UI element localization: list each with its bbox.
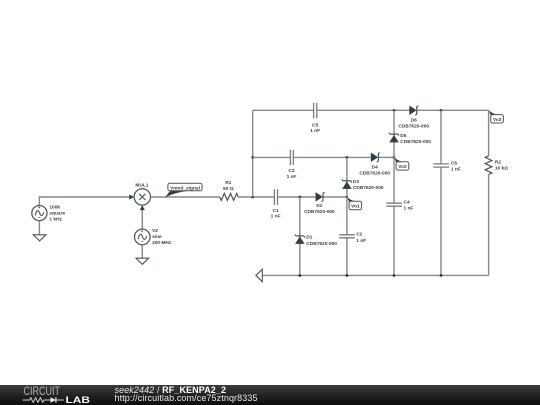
voltage source V1: [32, 206, 47, 221]
svg-text:C4: C4: [404, 200, 410, 206]
svg-text:CDB7620-000: CDB7620-000: [353, 185, 384, 191]
CircuitLab logo resistor-diode glyph: [23, 397, 64, 402]
wire V2 to ground: [141, 245, 143, 259]
wire riser from main wire to top rail: [252, 110, 254, 197]
svg-text:Vo2: Vo2: [398, 164, 407, 170]
svg-text:Vo3: Vo3: [493, 117, 502, 123]
diode D6 CDB7620-000: [398, 106, 429, 130]
multiplier MUL1: [134, 183, 150, 205]
svg-text:D2: D2: [316, 203, 322, 209]
wire D6 to Vo3 corner: [417, 109, 488, 111]
junction at C4 / bottom rail: [393, 274, 396, 277]
junction at C2 / bottom rail: [346, 274, 349, 277]
svg-text:C2: C2: [356, 231, 362, 237]
svg-text:200 MHz: 200 MHz: [152, 240, 172, 246]
svg-text:V2: V2: [152, 228, 158, 234]
wire R2 branch vertical upper: [488, 110, 490, 156]
capacitor C5: [310, 103, 320, 134]
junction at node Vo2: [393, 156, 396, 159]
bottom rail wire: [262, 274, 488, 276]
junction at D5 branch / top rail: [393, 109, 396, 112]
svg-text:1 kHz: 1 kHz: [49, 217, 62, 223]
svg-text:MUL1: MUL1: [135, 183, 148, 189]
resistor R2: [485, 156, 508, 175]
junction at D3 branch / middle rail: [346, 156, 349, 159]
wire D3 branch vertical lower: [346, 238, 348, 275]
wire C6 branch vertical lower: [440, 167, 442, 275]
svg-text:CDB7620-000: CDB7620-000: [359, 171, 390, 177]
net flag Vo2: [394, 157, 409, 170]
resistor R1: [220, 180, 239, 201]
net flag Vo3: [489, 110, 504, 123]
wire V1 to MUL1 with arrowhead: [39, 195, 134, 200]
junction at D1 / bottom rail: [298, 274, 301, 277]
net flag Vo1: [347, 197, 362, 210]
wire R1 to C1: [238, 196, 274, 198]
svg-text:1 nF: 1 nF: [310, 128, 320, 134]
wire D5 branch vertical lower: [393, 206, 395, 275]
svg-text:CDB7620-000: CDB7620-000: [304, 209, 335, 215]
wire D2 to node Vo1: [323, 196, 347, 198]
wire R2 branch vertical lower: [488, 175, 490, 276]
junction at riser / middle rail: [251, 156, 254, 159]
ground for V2: [136, 258, 149, 264]
wire D4 to node Vo2: [379, 156, 394, 158]
svg-text:C1: C1: [273, 208, 279, 214]
svg-text:50 Ω: 50 Ω: [223, 186, 234, 192]
wire C3 to D4: [294, 156, 371, 158]
svg-text:R2: R2: [495, 159, 501, 165]
diode D1 CDB7620-000: [295, 234, 337, 247]
footer info text: [115, 386, 258, 403]
middle rail wire riser to C3: [253, 156, 290, 158]
wire C6 branch vertical upper: [440, 110, 442, 163]
wire V2 to MUL1 with up arrowhead: [140, 205, 145, 229]
open arrow terminal at bottom rail left: [256, 269, 262, 282]
wire D1 branch vertical: [299, 197, 301, 275]
wire V1 top stub: [38, 197, 40, 206]
svg-text:R1: R1: [225, 180, 231, 186]
wire C5 to D6: [317, 109, 409, 111]
svg-text:1 nF: 1 nF: [451, 166, 461, 172]
wire D3 branch vertical upper: [346, 157, 348, 234]
svg-text:D1: D1: [306, 235, 312, 241]
svg-text:D3: D3: [353, 179, 359, 185]
svg-text:C6: C6: [451, 160, 457, 166]
svg-text:C5: C5: [312, 123, 318, 129]
capacitor C2: [339, 231, 366, 243]
svg-text:CIRCUIT: CIRCUIT: [24, 386, 61, 398]
junction at node Vo1: [346, 196, 349, 199]
wire D5 branch vertical upper: [393, 110, 395, 203]
capacitor C6: [433, 160, 461, 172]
voltage source V2: [135, 229, 151, 245]
ground for V1: [33, 235, 46, 241]
svg-text:1 nF: 1 nF: [356, 238, 366, 244]
svg-text:1 nF: 1 nF: [404, 206, 414, 212]
wire C1 to D2: [278, 196, 316, 198]
svg-text:Vmod_signal: Vmod_signal: [170, 185, 200, 191]
diode D4 CDB7620-000: [359, 153, 390, 177]
svg-text:10 kΩ: 10 kΩ: [495, 166, 508, 172]
top rail riser to C5: [253, 109, 313, 111]
junction at D1 branch: [298, 196, 301, 199]
wire MUL1 to R1: [151, 196, 220, 198]
footer bar: [0, 385, 540, 405]
wire V1 to ground: [38, 221, 40, 235]
svg-text:square: square: [49, 211, 65, 217]
svg-text:D5: D5: [400, 133, 406, 139]
net flag Vmod_signal: [165, 183, 202, 197]
diode D5 CDB7620-000: [389, 132, 431, 145]
svg-text:CDB7620-000: CDB7620-000: [400, 139, 431, 145]
capacitor C1: [271, 189, 281, 219]
svg-text:1 nF: 1 nF: [287, 174, 297, 180]
svg-text:100k: 100k: [49, 205, 60, 211]
value label V2: sine 200 MHz: [152, 228, 172, 246]
svg-text:sine: sine: [152, 234, 162, 240]
svg-text:CDB7620-000: CDB7620-000: [398, 124, 429, 130]
diode D2 CDB7620-000: [304, 192, 335, 214]
value label V1: 100k square 1 kHz: [49, 205, 65, 223]
diode D3 CDB7620-000: [342, 179, 384, 191]
svg-text:Vo1: Vo1: [351, 204, 360, 210]
svg-text:CDB7620-000: CDB7620-000: [306, 241, 337, 247]
junction at riser / main wire: [251, 196, 254, 199]
svg-text:D6: D6: [411, 118, 417, 124]
svg-text:C3: C3: [288, 168, 294, 174]
svg-text:D4: D4: [372, 165, 378, 171]
junction at C6 branch / top rail: [440, 109, 443, 112]
svg-text:LAB: LAB: [66, 395, 91, 405]
junction at C6 / bottom rail: [440, 274, 443, 277]
capacitor C3: [287, 150, 297, 180]
capacitor C4: [386, 200, 413, 212]
svg-text:1 nF: 1 nF: [271, 214, 281, 220]
